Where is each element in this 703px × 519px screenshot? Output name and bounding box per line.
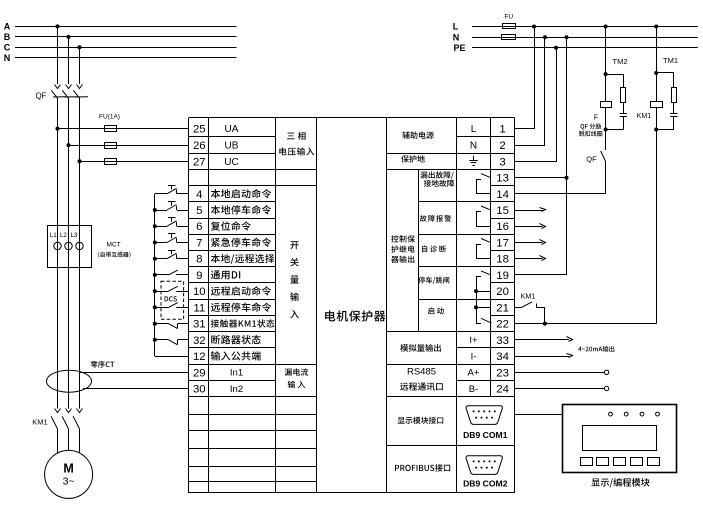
terminal numbers left: [193, 124, 206, 396]
svg-text:DB9 COM2: DB9 COM2: [463, 478, 508, 488]
wire: [472, 26, 698, 28]
svg-text:31: 31: [193, 319, 206, 331]
wire: [656, 116, 674, 129]
svg-text:22: 22: [496, 319, 509, 331]
svg-text:12: 12: [193, 351, 206, 363]
connector DB9 COM1: [463, 406, 508, 440]
wire: [15, 26, 237, 28]
group 开关量输入: [290, 241, 299, 318]
junction: [56, 24, 60, 28]
node L: [453, 22, 459, 32]
svg-text:MCT: MCT: [107, 242, 121, 249]
svg-text:27: 27: [193, 156, 206, 168]
wire: [623, 103, 625, 114]
resistor TM2: [621, 88, 626, 103]
svg-text:14: 14: [496, 189, 509, 201]
coil KM1: [637, 102, 663, 121]
svg-text:N: N: [4, 53, 11, 63]
wire terminal 19: [515, 274, 567, 276]
svg-text:9: 9: [196, 270, 202, 282]
junction: [153, 338, 157, 342]
svg-text:13: 13: [496, 173, 509, 185]
junction: [67, 35, 71, 39]
svg-text:In2: In2: [230, 384, 243, 395]
label TM1: [663, 56, 678, 65]
svg-text:In1: In1: [230, 368, 243, 379]
arrowhead: [77, 85, 83, 89]
svg-text:20: 20: [496, 286, 509, 298]
label 显示/编程模块: [591, 478, 649, 487]
junction: [153, 305, 157, 309]
wire: [68, 98, 70, 225]
relay contact 19/20/21/22: [474, 271, 492, 324]
group 漏电流输入: [285, 368, 308, 388]
contactor KM1 pole: [73, 409, 82, 429]
arrowhead: [55, 85, 61, 89]
wire: [15, 57, 237, 59]
display module 显示/编程模块: [563, 405, 677, 473]
wire: [83, 388, 189, 390]
wire terminal 22 to KM1 coil: [515, 107, 657, 323]
wire terminal 13: [515, 177, 567, 179]
svg-text:32: 32: [193, 335, 206, 347]
svg-text:N: N: [453, 32, 460, 42]
junction: [56, 127, 60, 131]
wire: [656, 27, 658, 102]
node C: [4, 42, 11, 52]
svg-text:6: 6: [196, 221, 202, 233]
switch 复位 (6): [155, 218, 189, 227]
svg-text:10: 10: [193, 286, 206, 298]
svg-text:KM1: KM1: [32, 418, 47, 427]
wire COM1 to display module: [515, 414, 563, 416]
svg-text:I+: I+: [469, 335, 478, 346]
wire: [673, 103, 675, 114]
group 模拟量输出: [400, 344, 440, 352]
svg-text:3~: 3~: [63, 475, 75, 487]
node A: [4, 22, 11, 32]
switch 远程启动 (10): [155, 286, 189, 291]
node N: [4, 53, 11, 63]
fuse F: [594, 102, 612, 122]
svg-text:PE: PE: [453, 43, 465, 53]
svg-text:L2: L2: [60, 232, 67, 239]
label TM2: [613, 57, 628, 66]
junction: [67, 143, 71, 147]
svg-text:M: M: [63, 461, 73, 475]
junction: [604, 72, 608, 76]
capacitor TM1: [670, 114, 677, 117]
svg-text:B-: B-: [469, 384, 479, 395]
wire: [79, 225, 81, 370]
wire: [79, 429, 81, 453]
wire terminal 3 to PE: [515, 46, 559, 162]
wire arrow out: [515, 256, 546, 261]
wire arrow out: [515, 208, 546, 212]
contact KM1 aux (31): [155, 324, 189, 329]
svg-text:KM1: KM1: [637, 113, 652, 120]
wire RS485: [515, 370, 609, 374]
svg-text:N: N: [470, 141, 477, 152]
junction: [78, 45, 82, 49]
svg-text:UA: UA: [225, 124, 239, 135]
group 保护地: [401, 155, 425, 162]
contactor KM1 label: [32, 418, 47, 427]
wire: [605, 27, 607, 102]
connector DB9 COM2: [463, 456, 508, 489]
svg-text:L: L: [453, 22, 459, 32]
wire: [15, 47, 237, 49]
breaker QF label: [35, 91, 46, 100]
switch 本地启动 (4): [155, 185, 189, 194]
wire terminal 1 to L: [515, 25, 537, 129]
junction: [153, 257, 157, 261]
wire 4-20mA out: [515, 354, 573, 358]
contactor KM1 pole: [51, 409, 60, 429]
wire: [57, 26, 59, 84]
svg-text:23: 23: [496, 367, 509, 379]
resistor TM1: [672, 88, 677, 103]
switch 本地/远程 (8): [155, 250, 189, 259]
junction: [153, 224, 157, 228]
group RS485 远程通讯口: [400, 366, 443, 390]
svg-text:A+: A+: [468, 368, 480, 379]
wire arrow out: [515, 240, 546, 245]
group 三相电压输入: [279, 132, 314, 156]
group 控制保护继电器输出: [391, 235, 415, 263]
svg-text:I-: I-: [471, 351, 477, 362]
svg-text:4: 4: [196, 189, 202, 201]
svg-text:FU(1A): FU(1A): [99, 114, 120, 121]
fuse FU on L: [503, 24, 516, 29]
protector block grid: [189, 117, 515, 493]
wire: [68, 37, 70, 84]
wire: [606, 116, 624, 129]
relay contact 17/18: [476, 239, 491, 259]
wire: [80, 161, 190, 163]
junction: [654, 128, 658, 132]
svg-text:FU: FU: [504, 14, 513, 21]
breaker QF pole: [73, 90, 88, 98]
svg-text:UB: UB: [225, 141, 239, 152]
node B: [4, 32, 11, 42]
svg-text:16: 16: [496, 221, 509, 233]
svg-text:QF: QF: [586, 154, 597, 163]
wire: [58, 128, 190, 130]
svg-text:B: B: [4, 32, 11, 42]
svg-text:26: 26: [193, 140, 206, 152]
svg-text:3: 3: [499, 156, 505, 168]
svg-text:TM1: TM1: [663, 56, 678, 65]
junction: [153, 241, 157, 245]
wire input common rail: [155, 194, 190, 357]
svg-text:L1: L1: [50, 232, 57, 239]
relay contact 13/14: [476, 174, 491, 194]
wire: [472, 47, 698, 49]
label 4~20mA输出: [578, 346, 614, 352]
svg-text:30: 30: [193, 384, 206, 396]
junction: [153, 289, 157, 293]
junction: [604, 25, 608, 29]
group 自诊断: [422, 245, 446, 252]
svg-text:2: 2: [499, 140, 505, 152]
svg-text:L3: L3: [70, 232, 77, 239]
motor M 3~: [45, 450, 93, 498]
svg-text:18: 18: [496, 254, 509, 266]
wire: [657, 73, 674, 88]
device 电机保护器: [325, 310, 385, 321]
fuse FU(1A) label: [99, 114, 120, 121]
junction: [153, 273, 157, 277]
group 显示模块接口: [398, 417, 444, 424]
group 辅助电源: [402, 131, 434, 138]
svg-text:C: C: [4, 42, 11, 52]
wire: [15, 36, 237, 38]
switch 通用DI (9): [155, 270, 189, 275]
junction: [153, 322, 157, 326]
breaker QF pole: [51, 90, 66, 98]
group PROFIBUS接口: [395, 464, 450, 472]
svg-text:8: 8: [196, 254, 202, 266]
wire arrow out: [515, 224, 546, 229]
wire: [57, 370, 59, 408]
current transformer 零序CT: [47, 370, 92, 392]
svg-text:UC: UC: [224, 157, 238, 168]
fuse FU label: [504, 14, 513, 21]
wire: [57, 225, 59, 370]
svg-text:25: 25: [193, 124, 206, 136]
wire: [472, 37, 698, 39]
svg-text:QF: QF: [35, 91, 46, 100]
node PE: [453, 43, 465, 53]
svg-text:15: 15: [496, 205, 509, 217]
group 启动: [428, 307, 444, 314]
wire: [57, 98, 59, 225]
svg-text:F: F: [594, 115, 598, 122]
switch 本地停车 (5): [155, 201, 189, 210]
fuse FU(1A): [105, 159, 117, 165]
wire: [80, 372, 189, 374]
wire: [79, 370, 81, 408]
breaker QF pole: [62, 90, 77, 98]
svg-text:7: 7: [196, 238, 202, 250]
wire: [68, 429, 70, 451]
wire N to terminals 13/19: [565, 35, 569, 275]
node N: [453, 32, 460, 42]
wire 4-20mA out: [515, 337, 573, 342]
svg-text:TM2: TM2: [613, 57, 628, 66]
terminal numbers right: [496, 124, 509, 396]
svg-text:19: 19: [496, 270, 509, 282]
fuse FU(1A): [105, 126, 117, 132]
contactor KM1 pole: [62, 409, 71, 429]
svg-text:21: 21: [496, 302, 509, 314]
label 零序CT: [91, 361, 115, 368]
group 漏出故障/接地故障: [420, 171, 454, 187]
arrowhead: [66, 85, 72, 89]
svg-text:5: 5: [196, 205, 202, 217]
svg-text:17: 17: [496, 238, 509, 250]
current transformer MCT: [48, 226, 92, 268]
fuse FU(1A): [105, 143, 117, 149]
signal names UA UB UC In1 In2: [224, 124, 243, 395]
svg-text:29: 29: [193, 367, 206, 379]
junction: [654, 25, 658, 29]
wire: [79, 47, 81, 84]
group 停车/跳闸: [418, 277, 449, 284]
junction: [654, 71, 658, 75]
contact breaker status (32): [155, 340, 189, 345]
wire: [604, 107, 608, 150]
switch 紧急停车 (7): [155, 234, 189, 243]
switch 远程停车 (11): [155, 303, 189, 308]
breaker QF aux: [586, 151, 605, 163]
svg-text:33: 33: [496, 335, 509, 347]
wire: [68, 225, 70, 370]
label MCT: [98, 242, 131, 258]
junction: [78, 159, 82, 163]
svg-text:34: 34: [496, 351, 509, 363]
label QF分励脱扣线圈: [579, 124, 602, 137]
signal names L N I+ I- A+ B-: [468, 124, 480, 395]
wire RS485: [515, 386, 609, 390]
wire terminal 2 to N: [515, 35, 548, 145]
svg-text:RS485: RS485: [407, 366, 436, 377]
fuse FU on N: [502, 35, 516, 40]
capacitor TM2: [620, 114, 627, 117]
wire: [68, 370, 70, 408]
svg-text:L: L: [471, 124, 477, 135]
group 故障报警: [420, 215, 451, 222]
svg-text:24: 24: [496, 384, 509, 396]
svg-text:A: A: [4, 22, 11, 32]
svg-text:DB9 COM1: DB9 COM1: [463, 430, 508, 440]
wire: [69, 145, 190, 147]
wire: [606, 75, 624, 88]
wire: [57, 429, 59, 453]
DCS box: [161, 281, 184, 319]
svg-text:KM1: KM1: [521, 292, 536, 301]
contact KM1 aux: [515, 292, 547, 326]
ground symbol: [469, 156, 477, 166]
wire terminal 14 to QF: [515, 162, 606, 194]
wire: [79, 98, 81, 225]
svg-text:1: 1: [499, 124, 505, 136]
svg-text:11: 11: [193, 302, 205, 314]
input signal names: [211, 189, 275, 361]
junction: [153, 208, 157, 212]
relay contact 15/16: [476, 206, 491, 227]
